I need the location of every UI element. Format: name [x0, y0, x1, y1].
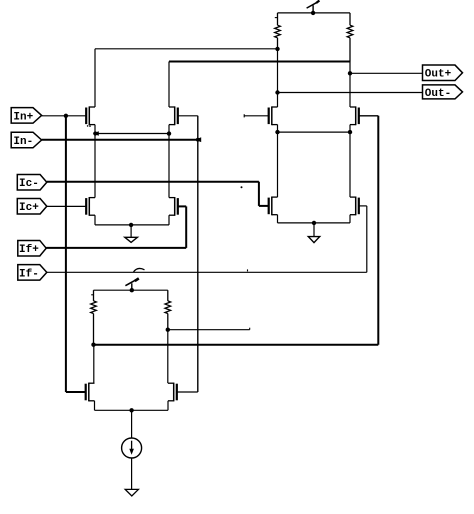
- wire M8 source down: [349, 215, 351, 223]
- node Out+: [348, 71, 352, 75]
- wire If- riser: [366, 206, 368, 272]
- transistor M4: [350, 106, 359, 125]
- node In+ junction: [64, 114, 68, 118]
- transistor M10: [168, 383, 177, 402]
- wire R4 node down: [167, 330, 169, 384]
- transistor M6: [169, 197, 178, 216]
- label squiggle If-: [134, 268, 145, 272]
- node M4 source: [348, 130, 352, 134]
- wire tail down: [131, 410, 133, 438]
- wire M9 gate lead: [66, 391, 86, 393]
- wire Ic- lead: [47, 181, 259, 183]
- wire Ic+ lead: [47, 205, 86, 207]
- wire If- lead: [47, 271, 367, 273]
- wire M3 source down: [277, 125, 279, 198]
- wire Ic- to M7 gate: [259, 205, 269, 207]
- vdd symbol bottom: [125, 278, 138, 290]
- wire Out+ lead: [350, 72, 423, 74]
- port Out+: [423, 65, 463, 81]
- wire M9 source down: [94, 401, 96, 411]
- node pair3 tail: [129, 223, 133, 227]
- port Ic-: [17, 174, 47, 190]
- label speck: [241, 186, 243, 188]
- wire M3 gate stub: [244, 114, 269, 117]
- wire M10 source down: [167, 401, 169, 411]
- wire In- lead: [42, 139, 198, 141]
- node R3 bottom: [91, 343, 95, 347]
- wire In+ vertical: [65, 116, 67, 392]
- port In+: [11, 108, 41, 124]
- wire M6 source down: [168, 215, 170, 225]
- ground gnd3: [125, 489, 138, 496]
- transistor M5: [86, 197, 95, 216]
- transistor M2: [169, 106, 178, 125]
- node R1 bottom: [275, 47, 279, 51]
- svg-text:If+: If+: [19, 244, 39, 256]
- svg-text:If-: If-: [19, 268, 39, 280]
- wire M2 drain up: [168, 62, 170, 108]
- resistor R3: [91, 290, 97, 345]
- wire common source pair4: [278, 222, 351, 224]
- label speck M1: [87, 125, 91, 127]
- transistor M3: [269, 106, 278, 125]
- wire M10 gate ext: [177, 391, 198, 393]
- transistor M8: [350, 197, 359, 216]
- transistor M1: [86, 106, 95, 125]
- port If+: [18, 240, 46, 256]
- wire M2 gate ext: [178, 115, 198, 117]
- port Out-: [423, 85, 463, 100]
- wire common source pair2: [278, 131, 351, 133]
- vdd rail bottom: [94, 289, 168, 291]
- node vdd top: [311, 11, 315, 15]
- wire In- vertical: [197, 116, 199, 392]
- wire M7 source down: [277, 215, 279, 223]
- vdd symbol top: [307, 1, 320, 13]
- wire M4 source down: [349, 125, 351, 198]
- port In-: [11, 132, 41, 148]
- wire drain2 to R2 node: [169, 61, 350, 63]
- transistor M7: [269, 197, 278, 216]
- label tick If-: [247, 269, 249, 271]
- wire M1 drain up: [94, 49, 96, 107]
- node R4 bottom: [166, 328, 170, 332]
- wire M6 gate ext: [178, 205, 186, 207]
- vdd rail top: [278, 12, 351, 14]
- svg-text:In+: In+: [13, 111, 33, 123]
- node Out-: [275, 90, 279, 94]
- node vdd bottom: [130, 288, 134, 292]
- wire common source pair1: [95, 133, 169, 135]
- port Ic+: [17, 198, 47, 214]
- node M2 source: [167, 131, 171, 135]
- resistor R4: [165, 290, 171, 330]
- svg-text:Out+: Out+: [425, 69, 452, 81]
- wire I1 to ground: [131, 458, 133, 489]
- ground gnd1: [125, 237, 138, 242]
- node M1 source arrow: [93, 131, 99, 136]
- wire gnd2 stub: [313, 223, 315, 237]
- svg-text:Ic-: Ic-: [19, 178, 39, 190]
- wire common source pair5: [95, 409, 169, 411]
- wire drain1 to R1 node: [95, 48, 278, 50]
- wire M5 source down: [94, 215, 96, 225]
- label tick R1: [275, 17, 277, 19]
- svg-text:Ic+: Ic+: [19, 202, 39, 214]
- wire In+ lead: [42, 115, 87, 117]
- wire R1 node down: [277, 49, 279, 107]
- wire R2 node down: [349, 62, 351, 108]
- wire M4 gate ext: [359, 115, 379, 117]
- port If-: [18, 265, 47, 281]
- node M3 source: [275, 130, 279, 134]
- wire If+ lead: [46, 247, 186, 249]
- wire R4 stub right: [168, 328, 250, 330]
- resistor R1: [275, 13, 281, 49]
- wire feedback vertical: [377, 116, 379, 345]
- wire M8 gate ext: [359, 205, 367, 207]
- wire feedback bottom: [94, 344, 379, 346]
- wire If+ riser: [185, 206, 187, 248]
- node In- arrow: [195, 137, 201, 142]
- label tick R3: [91, 294, 93, 296]
- ground gnd2: [308, 237, 319, 243]
- wire common source pair3: [95, 224, 169, 226]
- svg-text:In-: In-: [13, 136, 33, 148]
- wire gnd1 stub: [130, 225, 132, 237]
- node pair4 tail: [312, 221, 316, 225]
- wire Ic- jog: [258, 182, 260, 206]
- transistor M9: [86, 383, 95, 402]
- wire R3 node down: [93, 345, 95, 384]
- resistor R2: [347, 13, 353, 62]
- current source I1: [122, 438, 142, 458]
- wire M1 source down: [94, 125, 96, 198]
- svg-text:Out-: Out-: [425, 88, 451, 100]
- wire Out- lead: [278, 92, 423, 94]
- node pair5 tail: [129, 408, 133, 412]
- wire M2 source down: [168, 125, 170, 198]
